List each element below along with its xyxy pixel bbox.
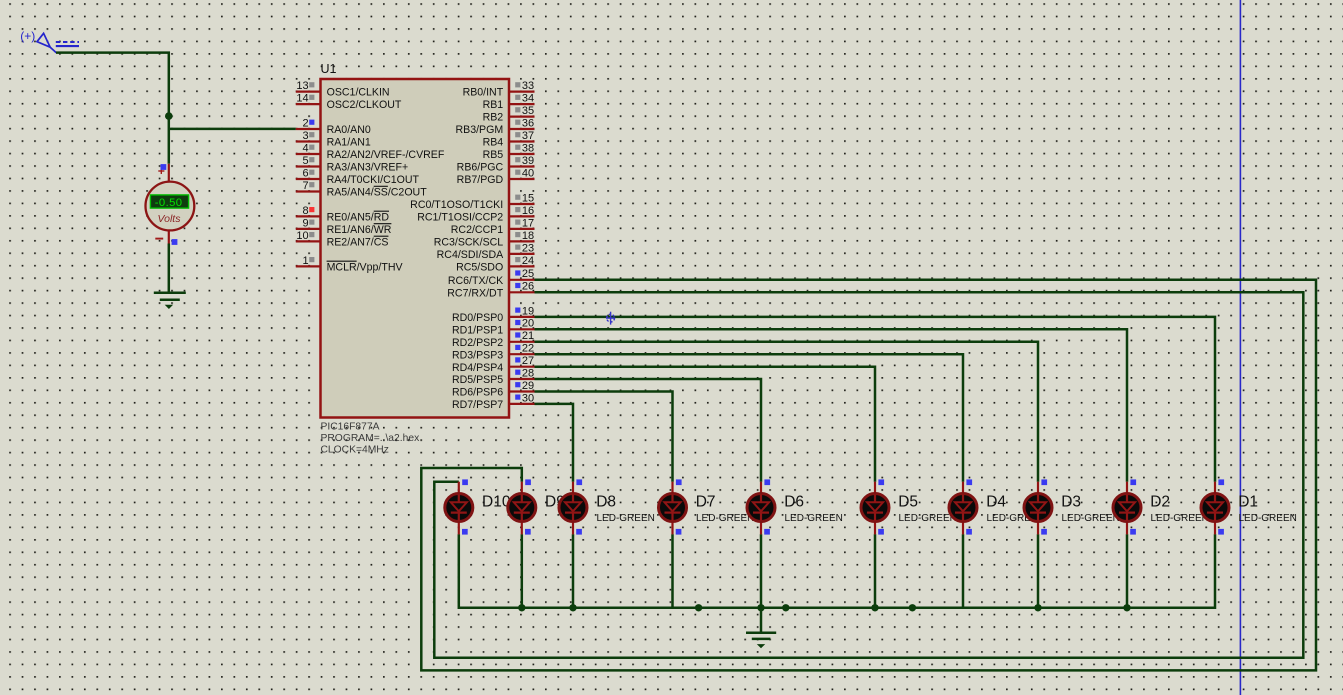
- LED D10: [445, 479, 473, 534]
- pin 39 (RB6/PGC): [457, 155, 535, 174]
- pin 25 (RC6/TX/CK): [448, 268, 535, 287]
- svg-text:39: 39: [522, 155, 534, 167]
- svg-text:4: 4: [302, 142, 308, 154]
- svg-text:D4: D4: [986, 493, 1006, 510]
- svg-text:26: 26: [522, 281, 534, 293]
- svg-text:D5: D5: [898, 493, 918, 510]
- voltmeter Volts label: [158, 213, 182, 225]
- svg-text:36: 36: [522, 117, 534, 129]
- svg-text:U1: U1: [321, 62, 337, 76]
- svg-text:5: 5: [302, 155, 308, 167]
- wire pin 28 to LED D6: [535, 379, 762, 482]
- wire voltmeter to ground: [168, 244, 171, 293]
- svg-text:RD6/PSP6: RD6/PSP6: [452, 387, 503, 399]
- svg-text:RE1/AN6/WR: RE1/AN6/WR: [327, 224, 392, 236]
- svg-text:RC4/SDI/SDA: RC4/SDI/SDA: [437, 249, 504, 261]
- junction dot on bus at x=875: [871, 604, 878, 611]
- wire pin 27 to LED D5: [535, 367, 876, 482]
- label D7: [696, 493, 716, 510]
- svg-text:23: 23: [522, 242, 534, 254]
- svg-text:RB2: RB2: [483, 112, 504, 124]
- svg-text:25: 25: [522, 268, 534, 280]
- pin 10 (RE2/AN7/CS): [296, 230, 389, 249]
- svg-text:RD3/PSP3: RD3/PSP3: [452, 349, 503, 361]
- svg-text:29: 29: [522, 380, 534, 392]
- svg-text:OSC1/CLKIN: OSC1/CLKIN: [327, 87, 390, 99]
- mouse cursor crosshair: [606, 312, 615, 325]
- pin 36 (RB3/PGM): [456, 117, 535, 136]
- svg-text:40: 40: [522, 167, 534, 179]
- pin 37 (RB4): [483, 130, 535, 149]
- label D3: [1061, 493, 1081, 510]
- pin 14 (OSC2/CLKOUT): [296, 93, 402, 112]
- svg-text:38: 38: [522, 142, 534, 154]
- voltmeter body: [146, 182, 195, 231]
- label D10: [482, 493, 511, 510]
- svg-text:18: 18: [522, 230, 534, 242]
- label LED-GREEN of D8: [597, 513, 655, 524]
- svg-text:RC5/SDO: RC5/SDO: [456, 262, 503, 274]
- svg-text:6: 6: [302, 167, 308, 179]
- svg-text:LED-GREEN: LED-GREEN: [785, 513, 843, 524]
- pin 35 (RB2): [483, 105, 535, 124]
- junction dot on bus at x=1127: [1123, 604, 1130, 611]
- svg-text:OSC2/CLKOUT: OSC2/CLKOUT: [327, 99, 402, 111]
- label D2: [1150, 493, 1170, 510]
- svg-text:9: 9: [302, 217, 308, 229]
- svg-text:LED-GREEN: LED-GREEN: [1062, 513, 1120, 524]
- junction dot on bus at x=786: [782, 604, 789, 611]
- pin 13 (OSC1/CLKIN): [296, 80, 390, 99]
- pin 21 (RD2/PSP2): [452, 330, 535, 349]
- svg-text:LED-GREEN: LED-GREEN: [1151, 513, 1209, 524]
- label LED-GREEN of D3: [1062, 513, 1120, 524]
- svg-text:D1: D1: [1238, 493, 1258, 510]
- pin 5 (RA3/AN3/VREF+): [296, 155, 408, 174]
- svg-text:37: 37: [522, 130, 534, 142]
- pin 30 (RD7/PSP7): [452, 392, 535, 411]
- voltmeter terminal marker top: [161, 164, 167, 170]
- svg-text:RA1/AN1: RA1/AN1: [327, 137, 371, 149]
- svg-text:PIC16F877A: PIC16F877A: [321, 422, 380, 433]
- pin 23 (RC4/SDI/SDA): [437, 242, 535, 261]
- LED D1: [1201, 479, 1229, 534]
- pin 33 (RB0/INT): [463, 80, 535, 99]
- LED D2: [1113, 479, 1141, 534]
- label LED-GREEN of D1: [1239, 513, 1297, 524]
- junction dot on bus at x=761: [757, 604, 764, 611]
- op: U1 designator label: [321, 62, 337, 76]
- svg-text:RD0/PSP0: RD0/PSP0: [452, 312, 503, 324]
- junction dot on bus at x=699: [695, 604, 702, 611]
- LED D9: [508, 479, 536, 534]
- label D1: [1238, 493, 1258, 510]
- svg-text:RB4: RB4: [483, 137, 504, 149]
- svg-text:RC7/RX/DT: RC7/RX/DT: [447, 287, 503, 299]
- svg-text:27: 27: [522, 355, 534, 367]
- svg-text:RE0/AN5/RD: RE0/AN5/RD: [327, 212, 390, 224]
- svg-text:RD7/PSP7: RD7/PSP7: [452, 399, 503, 411]
- U1 part texts: [321, 422, 421, 456]
- label LED-GREEN of D6: [785, 513, 843, 524]
- svg-text:2: 2: [302, 117, 308, 129]
- voltmeter minus mark: [155, 238, 163, 240]
- svg-text:RB6/PGC: RB6/PGC: [457, 162, 504, 174]
- pin 38 (RB5): [483, 142, 535, 161]
- microcontroller U1 PIC16F877A body: [321, 79, 510, 418]
- svg-text:RD4/PSP4: RD4/PSP4: [452, 362, 503, 374]
- svg-text:LED-GREEN: LED-GREEN: [1239, 513, 1297, 524]
- svg-text:RA2/AN2/VREF-/CVREF: RA2/AN2/VREF-/CVREF: [327, 149, 445, 161]
- wire RC7 (pin 26) long loop to LED D10: [434, 292, 1303, 657]
- pin 20 (RD1/PSP1): [452, 318, 535, 337]
- wire RC6 (pin 25) long loop to LED D9: [421, 280, 1316, 671]
- sheet border (blue vertical line): [1239, 0, 1241, 695]
- svg-text:28: 28: [522, 367, 534, 379]
- wire LED D3 cathode to bus: [1037, 534, 1040, 608]
- wire LED D5 cathode to bus: [874, 534, 877, 608]
- svg-text:RB3/PGM: RB3/PGM: [456, 124, 504, 136]
- voltmeter negative pin stub: [168, 231, 170, 244]
- svg-text:RB7/PGD: RB7/PGD: [457, 174, 504, 186]
- svg-text:CLOCK=4MHz: CLOCK=4MHz: [321, 445, 389, 456]
- pin 24 (RC5/SDO): [456, 255, 534, 274]
- svg-text:16: 16: [522, 205, 534, 217]
- label LED-GREEN of D2: [1151, 513, 1209, 524]
- svg-text:24: 24: [522, 255, 534, 267]
- svg-text:33: 33: [522, 80, 534, 92]
- voltmeter positive pin stub: [168, 164, 170, 182]
- LED D8: [559, 479, 587, 534]
- svg-text:PROGRAM=..\a2.hex: PROGRAM=..\a2.hex: [321, 433, 421, 444]
- svg-text:LED-GREEN: LED-GREEN: [696, 513, 754, 524]
- svg-text:19: 19: [522, 305, 534, 317]
- pin 16 (RC1/T1OSI/CCP2): [417, 205, 534, 224]
- svg-text:RC3/SCK/SCL: RC3/SCK/SCL: [434, 237, 504, 249]
- wire LED D6 cathode to bus: [760, 534, 763, 608]
- wire pin 29 to LED D7: [535, 392, 673, 482]
- svg-text:D3: D3: [1061, 493, 1081, 510]
- wire pin 20 to LED D2: [535, 329, 1128, 481]
- label LED-GREEN of D5: [899, 513, 957, 524]
- svg-text:RB0/INT: RB0/INT: [463, 87, 504, 99]
- svg-text:RC0/T1OSO/T1CKI: RC0/T1OSO/T1CKI: [410, 199, 503, 211]
- svg-text:RA3/AN3/VREF+: RA3/AN3/VREF+: [327, 162, 409, 174]
- label D6: [784, 493, 804, 510]
- pin 8 (RE0/AN5/RD): [296, 205, 390, 224]
- svg-text:RB1: RB1: [483, 99, 504, 111]
- svg-text:LED-GREEN: LED-GREEN: [597, 513, 655, 524]
- wire LED D7 cathode to bus: [671, 534, 674, 608]
- svg-text:RC2/CCP1: RC2/CCP1: [451, 224, 504, 236]
- pin 4 (RA2/AN2/VREF-/CVREF): [296, 142, 445, 161]
- junction dot on bus at x=522: [518, 604, 525, 611]
- label LED-GREEN of D4: [987, 513, 1045, 524]
- svg-text:RA4/T0CKI/C1OUT: RA4/T0CKI/C1OUT: [327, 174, 420, 186]
- pin 29 (RD6/PSP6): [452, 380, 535, 399]
- pin 28 (RD5/PSP5): [452, 367, 535, 386]
- pin 26 (RC7/RX/DT): [447, 281, 534, 300]
- svg-text:RC1/T1OSI/CCP2: RC1/T1OSI/CCP2: [417, 212, 503, 224]
- pin 9 (RE1/AN6/WR): [296, 217, 392, 236]
- LED D3: [1024, 479, 1052, 534]
- svg-text:35: 35: [522, 105, 534, 117]
- svg-text:-0.50: -0.50: [155, 197, 183, 209]
- svg-text:RD1/PSP1: RD1/PSP1: [452, 324, 503, 336]
- svg-text:RD5/PSP5: RD5/PSP5: [452, 374, 503, 386]
- svg-text:17: 17: [522, 217, 534, 229]
- pin 34 (RB1): [483, 93, 535, 112]
- svg-text:(+): (+): [20, 29, 35, 43]
- svg-text:20: 20: [522, 318, 534, 330]
- svg-text:RA5/AN4/SS/C2OUT: RA5/AN4/SS/C2OUT: [327, 187, 428, 199]
- svg-text:RD2/PSP2: RD2/PSP2: [452, 337, 503, 349]
- wire ground bus below LEDs: [459, 534, 1215, 608]
- junction dot on bus at x=1038: [1034, 604, 1041, 611]
- wire pin 21 to LED D3: [535, 342, 1039, 482]
- svg-text:13: 13: [296, 80, 308, 92]
- label D9: [545, 493, 565, 510]
- svg-text:D6: D6: [784, 493, 804, 510]
- svg-text:RE2/AN7/CS: RE2/AN7/CS: [327, 237, 389, 249]
- pin 2 (RA0/AN0): [296, 117, 371, 136]
- wire pin 22 to LED D4: [535, 354, 964, 482]
- junction dot on bus at x=573: [569, 604, 576, 611]
- pin 19 (RD0/PSP0): [452, 305, 535, 324]
- svg-text:8: 8: [302, 205, 308, 217]
- pin 7 (RA5/AN4/SS/C2OUT): [296, 180, 427, 199]
- wire LED D4 cathode to bus: [962, 534, 965, 608]
- pin 6 (RA4/T0CKI/C1OUT): [296, 167, 420, 186]
- pin 1 (MCLR/Vpp/THV): [296, 255, 404, 274]
- svg-text:RA0/AN0: RA0/AN0: [327, 124, 371, 136]
- svg-text:RB5: RB5: [483, 149, 504, 161]
- voltmeter LCD display -0.50: [150, 195, 188, 209]
- junction dot on source wire: [165, 112, 173, 120]
- wire bus to ground: [760, 608, 763, 633]
- svg-text:21: 21: [522, 330, 534, 342]
- voltmeter terminal marker bottom: [172, 239, 178, 245]
- svg-text:D2: D2: [1150, 493, 1170, 510]
- pin 3 (RA1/AN1): [296, 130, 371, 149]
- svg-text:1: 1: [302, 255, 308, 267]
- LED D7: [659, 479, 687, 534]
- pin 40 (RB7/PGD): [457, 167, 535, 186]
- wire pin 30 to LED D8: [535, 404, 574, 482]
- wire junction to pin RA0: [169, 128, 296, 131]
- svg-text:34: 34: [522, 93, 534, 105]
- label D4: [986, 493, 1006, 510]
- label D5: [898, 493, 918, 510]
- pin 27 (RD4/PSP4): [452, 355, 535, 374]
- ground (voltmeter): [154, 293, 186, 309]
- svg-text:D7: D7: [696, 493, 716, 510]
- svg-text:14: 14: [296, 93, 308, 105]
- label LED-GREEN of D7: [696, 513, 754, 524]
- svg-text:LED-GREEN: LED-GREEN: [899, 513, 957, 524]
- pin 22 (RD3/PSP3): [452, 343, 535, 362]
- LED D4: [949, 479, 977, 534]
- svg-text:RC6/TX/CK: RC6/TX/CK: [448, 275, 503, 287]
- wire pin 19 to LED D1: [535, 317, 1216, 482]
- LED D5: [861, 479, 889, 534]
- voltmeter plus mark: [158, 168, 164, 174]
- svg-text:15: 15: [522, 192, 534, 204]
- LED D6: [747, 479, 775, 534]
- svg-text:22: 22: [522, 343, 534, 355]
- svg-text:D8: D8: [596, 493, 616, 510]
- pin 15 (RC0/T1OSO/T1CKI): [410, 192, 534, 211]
- label D8: [596, 493, 616, 510]
- pin 18 (RC3/SCK/SCL): [434, 230, 535, 249]
- svg-text:10: 10: [296, 230, 308, 242]
- svg-text:Volts: Volts: [158, 213, 182, 225]
- wire LED D2 cathode to bus: [1126, 534, 1129, 608]
- svg-text:7: 7: [302, 180, 308, 192]
- wire from (+) source to junction and down to voltmeter: [56, 53, 169, 164]
- wire LED D9 cathode to bus: [521, 534, 524, 608]
- svg-text:30: 30: [522, 392, 534, 404]
- svg-text:MCLR/Vpp/THV: MCLR/Vpp/THV: [327, 262, 404, 274]
- ground (bus): [746, 633, 776, 648]
- pin 17 (RC2/CCP1): [451, 217, 535, 236]
- label (+): [20, 29, 35, 43]
- power terminal (+) symbol: [37, 33, 79, 52]
- wire LED D8 cathode to bus: [572, 534, 575, 608]
- junction dot on bus at x=912: [909, 604, 916, 611]
- svg-text:3: 3: [302, 130, 308, 142]
